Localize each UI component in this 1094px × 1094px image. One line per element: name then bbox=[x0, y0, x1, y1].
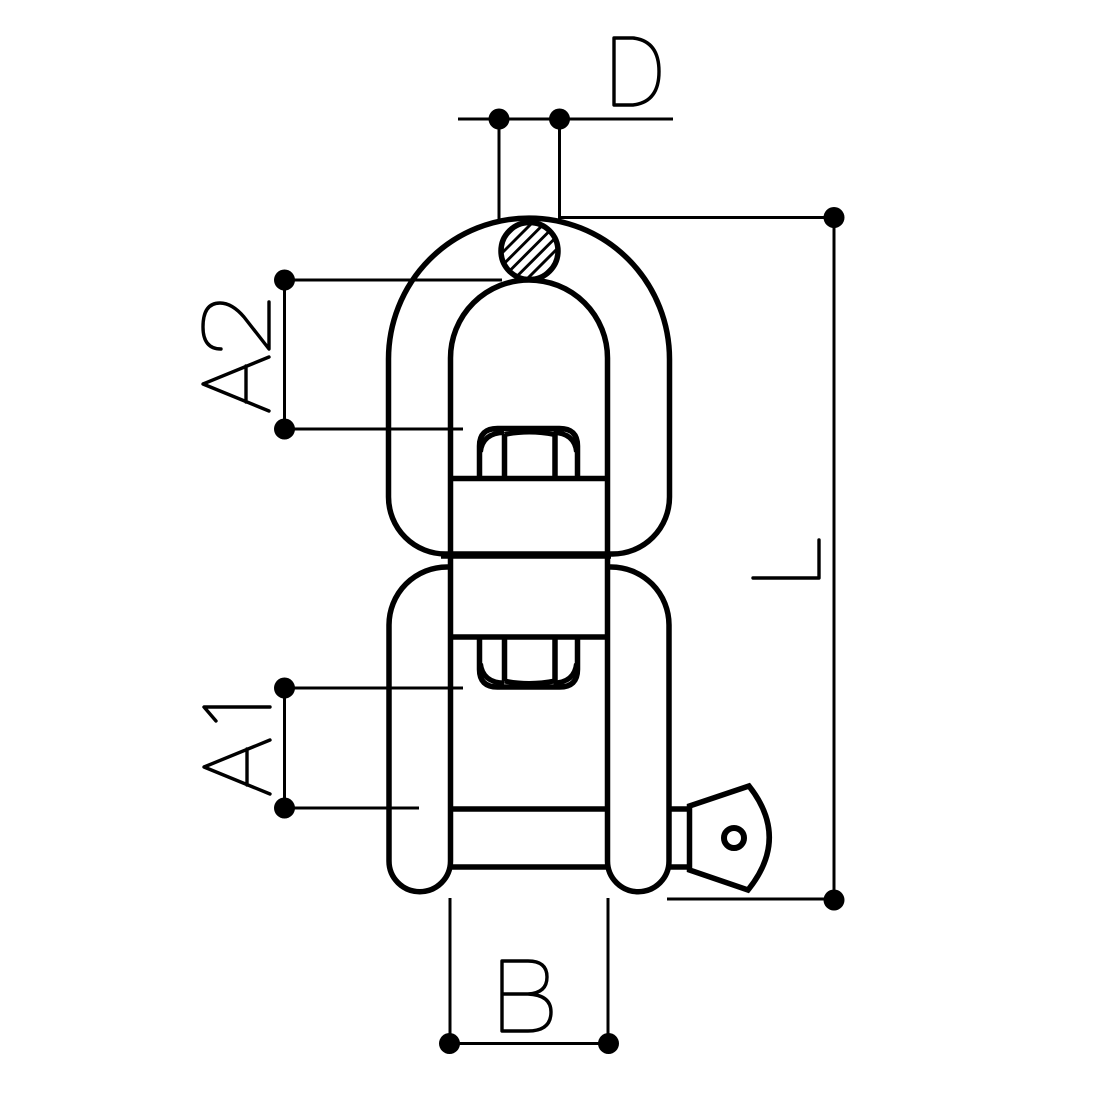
label A1 : digit 1 bbox=[204, 707, 270, 721]
label B bbox=[502, 961, 551, 1031]
dimension A2 bottom extension bbox=[285, 428, 464, 431]
label A2 : digit 2 bbox=[203, 302, 269, 349]
lower nut inner vertical right bbox=[552, 637, 558, 682]
dimension B left extension bbox=[449, 898, 452, 1044]
dimension A1 line bbox=[283, 688, 286, 808]
upper eye outer body bbox=[389, 218, 670, 554]
lower nut inner vertical left bbox=[502, 637, 508, 682]
bridge line (top of swivel body) bbox=[448, 476, 610, 482]
label A1 : letter A bbox=[204, 740, 270, 794]
dimension A1 top dot bbox=[274, 678, 295, 699]
dimension A1 bottom dot bbox=[274, 798, 295, 819]
upper nut right face arc bbox=[554, 433, 577, 453]
dimension L top dot bbox=[824, 207, 845, 228]
dimension L top extension bbox=[560, 216, 834, 219]
dimension D right dot bbox=[549, 109, 570, 130]
dimension A2 top extension bbox=[285, 279, 503, 282]
lower hex nut outline bbox=[480, 637, 578, 687]
upper nut left face arc bbox=[481, 433, 505, 453]
dimension D line bbox=[458, 118, 673, 121]
upper eye inner arch bbox=[451, 280, 608, 358]
jaw body top right corner bbox=[608, 567, 670, 892]
dimension A2 bottom dot bbox=[274, 419, 295, 440]
dimension D left dot bbox=[489, 109, 510, 130]
dimension B line bbox=[440, 1042, 618, 1045]
swivel shank left inner edge bbox=[448, 358, 454, 861]
label A2 : letter A bbox=[203, 357, 269, 411]
hatching bbox=[501, 222, 559, 280]
dimension A2 top dot bbox=[274, 270, 295, 291]
lower swivel line (nut seat) bbox=[451, 634, 608, 640]
pin head bbox=[690, 786, 770, 890]
dimension D right extension bbox=[558, 119, 561, 223]
lower nut right face arc bbox=[554, 664, 577, 684]
pin head hole bbox=[724, 828, 744, 848]
dimension B left dot bbox=[439, 1033, 460, 1054]
upper nut inner vertical right bbox=[552, 434, 558, 479]
clevis pin top edge bbox=[451, 806, 608, 812]
dimension A2 line bbox=[283, 280, 286, 429]
clevis pin bottom edge bbox=[451, 864, 608, 870]
dimension L bottom extension bbox=[667, 898, 834, 901]
dimension D left extension bbox=[498, 119, 501, 223]
pin shaft right top bbox=[669, 806, 689, 812]
dimension L line bbox=[833, 218, 836, 901]
dimension B right dot bbox=[598, 1033, 619, 1054]
swivel shank right inner edge bbox=[605, 358, 611, 861]
label D bbox=[614, 38, 659, 105]
jaw body top left corner bbox=[389, 567, 451, 892]
upper eye bottom line bbox=[441, 553, 611, 559]
dimension A1 bottom extension bbox=[285, 807, 420, 810]
dimension A1 top extension bbox=[285, 687, 464, 690]
upper nut middle face arc bbox=[505, 432, 555, 435]
pin shaft right bottom bbox=[669, 864, 689, 870]
hatched wire cross-section circle bbox=[501, 223, 558, 280]
label L bbox=[753, 540, 819, 578]
lower nut middle face arc bbox=[505, 681, 555, 684]
upper hex nut outline bbox=[480, 429, 578, 479]
lower nut left face arc bbox=[481, 664, 505, 684]
dimension L bottom dot bbox=[824, 890, 845, 911]
dimension B right extension bbox=[607, 898, 610, 1044]
upper nut inner vertical left bbox=[502, 434, 508, 479]
